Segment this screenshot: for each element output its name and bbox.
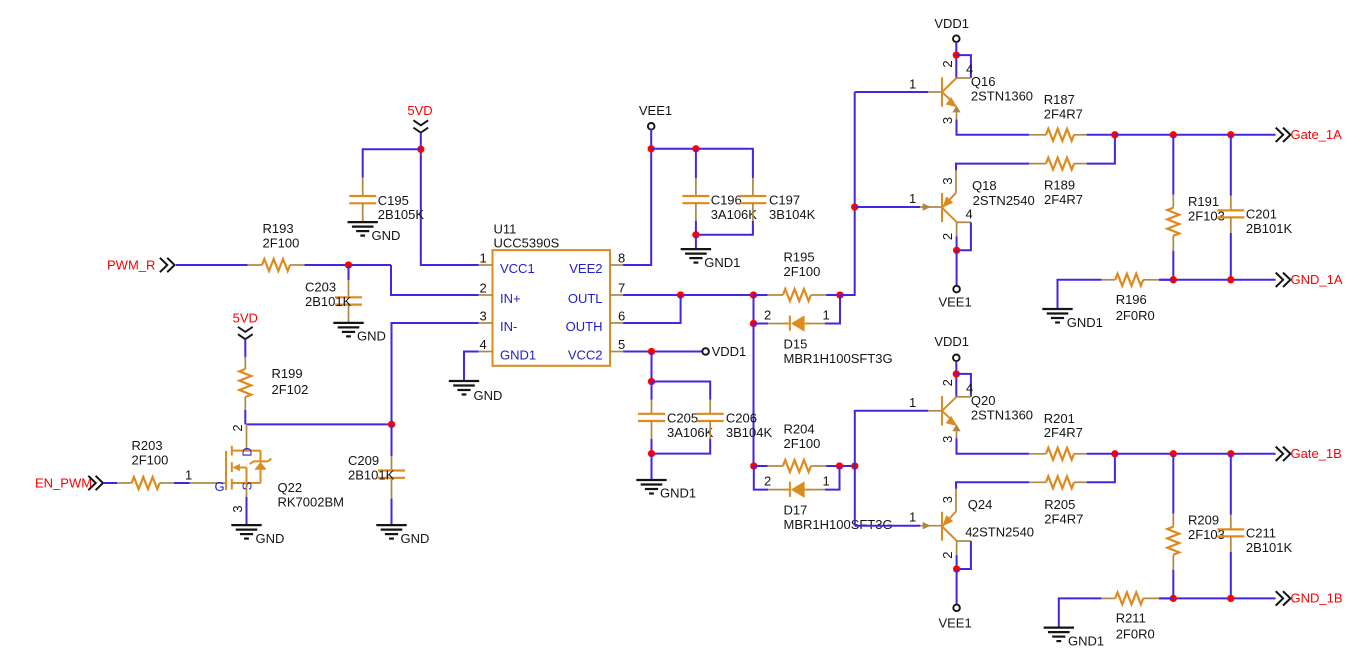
resistor R8 R191 <box>1172 135 1174 195</box>
ground GND1 below C205 <box>636 479 666 481</box>
wire C205 top rail to C206 <box>652 382 711 400</box>
capacitor C9 C201 <box>1230 135 1232 196</box>
resistor R9 R196 <box>1101 279 1115 281</box>
svg-text:GND1: GND1 <box>500 348 536 363</box>
node VDD1 terminal mid <box>702 348 709 355</box>
svg-text:2: 2 <box>940 233 955 240</box>
junction R204 right D17 tie <box>836 462 843 469</box>
svg-text:C195: C195 <box>378 193 409 208</box>
ground GND below Q22 <box>231 524 261 526</box>
junction OUTL OUTH tie <box>677 291 684 298</box>
wire R199 to Q22 drain <box>244 410 246 424</box>
svg-text:VCC1: VCC1 <box>500 261 535 276</box>
svg-text:R187: R187 <box>1044 92 1075 107</box>
ground GND1 right upper <box>1042 308 1072 310</box>
svg-text:3: 3 <box>480 309 487 324</box>
svg-text:3B104K: 3B104K <box>726 425 773 440</box>
svg-text:3: 3 <box>940 177 955 184</box>
wire VCC2 pin5 to VDD1 <box>623 351 702 353</box>
svg-text:OUTH: OUTH <box>566 319 603 334</box>
junction R204 left node <box>750 462 757 469</box>
wire Q20 pin4 loop <box>956 374 971 397</box>
svg-text:4: 4 <box>966 62 973 77</box>
junction R209 top <box>1170 450 1177 457</box>
node GND_1B output port <box>1276 591 1283 605</box>
svg-text:6: 6 <box>618 309 625 324</box>
svg-text:8: 8 <box>618 251 625 266</box>
resistor R4 R195 <box>754 294 768 296</box>
svg-text:D: D <box>240 447 255 456</box>
svg-text:R191: R191 <box>1188 194 1219 209</box>
wire 5VD to R199 <box>244 339 246 357</box>
wire Gate_1A rail <box>1115 134 1276 136</box>
svg-text:R201: R201 <box>1044 411 1075 426</box>
svg-text:1: 1 <box>823 474 830 489</box>
resistor R6 R187 <box>1029 134 1046 136</box>
svg-text:R189: R189 <box>1044 177 1075 192</box>
svg-text:5: 5 <box>618 337 625 352</box>
svg-text:GND1: GND1 <box>1067 315 1103 330</box>
svg-text:2F0R0: 2F0R0 <box>1116 308 1155 323</box>
wire Q22 source to GND <box>246 483 248 497</box>
junction OUTL column top <box>750 291 757 298</box>
svg-text:4: 4 <box>480 337 487 352</box>
svg-text:GND_1A: GND_1A <box>1291 272 1343 287</box>
wire R203 to Q22 gate <box>174 482 190 484</box>
svg-text:2: 2 <box>764 308 771 323</box>
junction C211 top <box>1227 450 1234 457</box>
svg-text:7: 7 <box>618 281 625 296</box>
svg-text:IN-: IN- <box>500 319 517 334</box>
svg-text:VEE2: VEE2 <box>569 261 602 276</box>
svg-text:EN_PWM: EN_PWM <box>35 476 92 491</box>
svg-text:1: 1 <box>480 251 487 266</box>
capacitor C8 C206 <box>709 400 711 414</box>
svg-text:2B105K: 2B105K <box>378 207 425 222</box>
svg-text:2: 2 <box>480 281 487 296</box>
junction C211 bottom <box>1227 595 1234 602</box>
svg-text:OUTL: OUTL <box>568 291 603 306</box>
svg-text:2B101K: 2B101K <box>1246 540 1293 555</box>
wire Q18 to VEE1 <box>956 250 958 286</box>
wire VEE2 pin8 to VEE1 <box>623 129 651 265</box>
svg-text:2F100: 2F100 <box>784 264 821 279</box>
pin 8 VEE2 <box>610 264 623 266</box>
op-amp U11 UCC5390S gate driver <box>493 250 611 366</box>
svg-text:GND: GND <box>256 531 285 546</box>
wire Gate_1B rail <box>1115 453 1276 455</box>
svg-text:VDD1: VDD1 <box>712 344 747 359</box>
resistor R12 R209 <box>1172 454 1174 514</box>
svg-text:2: 2 <box>940 379 955 386</box>
svg-text:2STN2540: 2STN2540 <box>972 525 1034 540</box>
svg-text:1: 1 <box>823 308 830 323</box>
svg-text:GND1: GND1 <box>660 486 696 501</box>
svg-text:VEE1: VEE1 <box>938 295 971 310</box>
junction C205 bottom <box>648 450 655 457</box>
svg-text:GND: GND <box>357 329 386 344</box>
junction Q24 emitter pins <box>953 565 960 572</box>
capacitor C10 C211 <box>1230 454 1232 515</box>
wire Q18 base drive <box>855 206 920 208</box>
svg-text:2F102: 2F102 <box>272 382 309 397</box>
svg-text:RK7002BM: RK7002BM <box>278 495 344 510</box>
wire GND_1B rail <box>1159 597 1276 599</box>
svg-text:2B101K: 2B101K <box>1246 221 1293 236</box>
svg-text:GND: GND <box>401 531 430 546</box>
wire base drive to Q16 <box>855 91 928 93</box>
capacitor C4 C196 <box>695 149 697 178</box>
svg-text:Gate_1A: Gate_1A <box>1291 127 1343 142</box>
wire base drive to Q20 <box>855 409 928 412</box>
svg-text:R199: R199 <box>272 366 303 381</box>
svg-text:3B104K: 3B104K <box>769 207 816 222</box>
wire GND1 pin4 to ground <box>464 352 479 382</box>
svg-text:Gate_1B: Gate_1B <box>1291 446 1342 461</box>
svg-text:VEE1: VEE1 <box>639 103 672 118</box>
wire to GND1 mid <box>695 235 697 249</box>
svg-text:D15: D15 <box>784 337 808 352</box>
svg-text:1: 1 <box>185 468 192 483</box>
svg-text:R209: R209 <box>1188 513 1219 528</box>
svg-text:C205: C205 <box>667 410 698 425</box>
junction VCC2 node <box>648 348 655 355</box>
svg-text:UCC5390S: UCC5390S <box>494 236 560 251</box>
wire VDD1 to Q16 collector <box>955 42 957 78</box>
wire R195 to transistor column <box>840 92 855 295</box>
svg-text:1: 1 <box>909 76 916 91</box>
capacitor C3 C203 <box>348 265 350 280</box>
svg-text:G: G <box>215 479 225 494</box>
wire R196 to GND1 <box>1058 280 1102 309</box>
wire transistor column lower pair <box>854 466 856 526</box>
svg-text:C211: C211 <box>1246 525 1276 540</box>
svg-text:4: 4 <box>965 525 972 540</box>
resistor R2 R199 <box>244 357 246 369</box>
svg-text:GND1: GND1 <box>1068 634 1104 649</box>
resistor R10 R201 <box>1029 453 1046 455</box>
junction R187 R189 tie <box>1111 131 1118 138</box>
svg-text:MBR1H100SFT3G: MBR1H100SFT3G <box>784 351 893 366</box>
svg-text:Q24: Q24 <box>968 497 993 512</box>
junction Q22 drain C209 tap <box>388 421 395 428</box>
svg-text:Q16: Q16 <box>971 74 996 89</box>
ground GND1 right lower <box>1044 626 1074 628</box>
svg-text:3: 3 <box>230 505 245 512</box>
svg-text:R195: R195 <box>784 250 815 265</box>
svg-text:VCC2: VCC2 <box>568 348 603 363</box>
junction Q18 base tap <box>851 203 858 210</box>
svg-text:3A106K: 3A106K <box>667 425 714 440</box>
svg-text:R203: R203 <box>132 438 163 453</box>
diode D17 MBR1H100SFT3G <box>768 489 784 491</box>
svg-text:VDD1: VDD1 <box>934 16 969 31</box>
junction node C203 tap <box>345 261 352 268</box>
node Gate_1A output port <box>1276 128 1283 142</box>
resistor R11 R205 <box>1029 481 1046 483</box>
wire OUTL pin7 rail <box>623 294 753 296</box>
svg-text:PWM_R: PWM_R <box>107 257 155 272</box>
junction VEE1 rail <box>648 145 655 152</box>
wire Q20 emitter to R201 <box>957 438 1030 454</box>
svg-text:C196: C196 <box>711 193 742 208</box>
wire transistor column upper pair <box>854 410 856 466</box>
svg-text:R204: R204 <box>784 422 815 437</box>
transistor Q5 Q24 2STN2540 PNP <box>920 525 941 527</box>
svg-text:5VD: 5VD <box>407 103 432 118</box>
wire Q24 to VEE1 <box>956 569 958 605</box>
wire PWM_R to R193 <box>176 264 248 266</box>
wire OUTL column down to D15 <box>753 295 755 324</box>
svg-text:2: 2 <box>230 424 245 431</box>
wire EN_PWM to R203 <box>103 482 117 484</box>
svg-text:C206: C206 <box>726 410 757 425</box>
svg-text:R196: R196 <box>1116 292 1147 307</box>
svg-text:4: 4 <box>966 381 973 396</box>
svg-text:Q22: Q22 <box>278 480 303 495</box>
junction Q20 collector pins <box>953 370 960 377</box>
svg-text:3: 3 <box>940 436 955 443</box>
svg-text:D17: D17 <box>784 503 808 518</box>
junction R195 right <box>836 291 843 298</box>
wire Q18 pin4 loop <box>957 221 971 223</box>
junction R191 top <box>1170 131 1177 138</box>
wire OUTH pin6 loop <box>623 295 681 323</box>
wire Q16 emitter to R187 <box>957 120 1030 135</box>
pin 3 IN- <box>479 322 493 324</box>
capacitor C7 C205 <box>651 382 653 400</box>
svg-text:2STN1360: 2STN1360 <box>971 407 1033 422</box>
resistor R1 R193 <box>248 264 262 266</box>
pin 4 GND1 <box>479 351 493 353</box>
svg-text:GND: GND <box>372 228 401 243</box>
svg-text:VEE1: VEE1 <box>938 616 971 631</box>
junction D15 anode node <box>750 320 757 327</box>
junction 5VD C195 tap <box>417 146 424 153</box>
ground GND below C203 <box>333 322 363 324</box>
pin 1 VCC1 <box>479 264 493 266</box>
junction C196 bottom <box>692 231 699 238</box>
wire Q16 pin4 loop <box>956 55 971 78</box>
svg-text:U11: U11 <box>494 222 517 237</box>
ground GND below C195 <box>348 221 378 223</box>
svg-text:C197: C197 <box>769 193 800 208</box>
svg-text:Q18: Q18 <box>972 178 997 193</box>
svg-text:GND_1B: GND_1B <box>1291 591 1343 606</box>
wire Q24 base drive <box>855 525 920 527</box>
wire C195 branch <box>363 149 421 178</box>
node GND_1A output port <box>1276 273 1283 287</box>
transistor Q2 Q22 RK7002BM MOSFET <box>190 482 226 484</box>
pin 7 OUTL <box>610 294 623 296</box>
diode D15 MBR1H100SFT3G <box>754 323 769 325</box>
svg-text:IN+: IN+ <box>500 291 521 306</box>
resistor R5 R204 <box>754 465 768 467</box>
svg-text:2F100: 2F100 <box>132 453 169 468</box>
junction R204 transistor column tie <box>851 462 858 469</box>
resistor R13 R211 <box>1101 597 1115 599</box>
node Gate_1B output port <box>1276 447 1283 461</box>
transistor Q1 Q16 2STN1360 NPN <box>928 91 941 93</box>
svg-text:2F100: 2F100 <box>263 236 300 251</box>
svg-text:1: 1 <box>909 191 916 206</box>
junction Q18 emitter pins <box>953 247 960 254</box>
ground GND below C209 <box>376 524 406 526</box>
svg-text:2F100: 2F100 <box>784 436 821 451</box>
svg-text:1: 1 <box>909 510 916 525</box>
junction C205 top <box>648 378 655 385</box>
resistor R3 R203 <box>117 482 131 484</box>
wire R204 node down to D17 <box>754 466 768 490</box>
svg-text:2B101K: 2B101K <box>305 294 352 309</box>
junction C201 top <box>1227 131 1234 138</box>
svg-text:C201: C201 <box>1246 206 1277 221</box>
svg-text:2B101K: 2B101K <box>348 468 395 483</box>
wire C205 to GND1 <box>651 454 653 480</box>
transistor Q4 Q20 2STN1360 NPN <box>928 410 941 412</box>
wire R193 to IN+ corner <box>305 264 392 266</box>
svg-text:2F4R7: 2F4R7 <box>1044 425 1083 440</box>
wire R211 to GND1 <box>1059 598 1102 627</box>
pin 5 VCC2 <box>610 351 623 353</box>
ground GND below pin4 <box>449 380 479 382</box>
junction C201 bottom <box>1227 276 1234 283</box>
svg-text:R205: R205 <box>1044 497 1075 512</box>
svg-text:2F4R7: 2F4R7 <box>1044 192 1083 207</box>
svg-text:2STN2540: 2STN2540 <box>973 193 1035 208</box>
capacitor C6 C197 <box>752 178 754 196</box>
svg-text:GND: GND <box>474 388 503 403</box>
capacitor C2 C195 <box>362 178 364 196</box>
junction C196 top <box>692 145 699 152</box>
svg-text:C209: C209 <box>348 453 379 468</box>
svg-text:2: 2 <box>764 474 771 489</box>
node VEE1 terminal Q18 <box>953 286 960 293</box>
node VEE1 terminal Q24 <box>953 605 960 612</box>
wire VEE1 rail to C196 C197 <box>651 149 753 178</box>
svg-text:VDD1: VDD1 <box>934 334 969 349</box>
svg-text:GND1: GND1 <box>704 255 740 270</box>
svg-text:3: 3 <box>940 496 955 503</box>
svg-text:R193: R193 <box>263 221 294 236</box>
wire Q24 pin4 loop <box>957 540 971 542</box>
svg-text:5VD: 5VD <box>233 311 258 326</box>
svg-text:2F0R0: 2F0R0 <box>1116 627 1155 642</box>
svg-text:Q20: Q20 <box>971 393 996 408</box>
svg-text:R211: R211 <box>1116 611 1146 626</box>
pin 2 IN+ <box>479 294 493 296</box>
wire 5VD to VCC1 pin1 <box>421 133 479 265</box>
svg-text:C203: C203 <box>305 280 336 295</box>
svg-text:1: 1 <box>909 395 916 410</box>
svg-text:4: 4 <box>966 207 973 222</box>
svg-text:2F4R7: 2F4R7 <box>1044 511 1083 526</box>
junction Q16 collector pins <box>953 51 960 58</box>
transistor Q3 Q18 2STN2540 PNP <box>920 206 941 208</box>
wire GND_1A rail <box>1159 279 1276 281</box>
svg-text:2: 2 <box>940 60 955 67</box>
junction R191 bottom <box>1170 276 1177 283</box>
svg-text:2: 2 <box>940 552 955 559</box>
wire VCC2 down to C205 <box>651 352 653 382</box>
resistor R7 R189 <box>1029 163 1046 165</box>
wire IN- to Q22 drain node <box>247 323 479 424</box>
svg-text:2STN1360: 2STN1360 <box>971 89 1033 104</box>
svg-text:2F4R7: 2F4R7 <box>1044 106 1083 121</box>
capacitor C5 C209 <box>391 424 393 456</box>
ground GND1 below C196 <box>681 248 711 250</box>
svg-text:3A106K: 3A106K <box>711 207 758 222</box>
junction R209 bottom <box>1170 595 1177 602</box>
pin 6 OUTH <box>610 322 623 324</box>
junction R201 R205 tie <box>1111 450 1118 457</box>
svg-text:3: 3 <box>940 117 955 124</box>
wire VDD1 to Q20 collector <box>955 361 957 397</box>
wire OUTL column D15 to R204 <box>753 324 755 467</box>
